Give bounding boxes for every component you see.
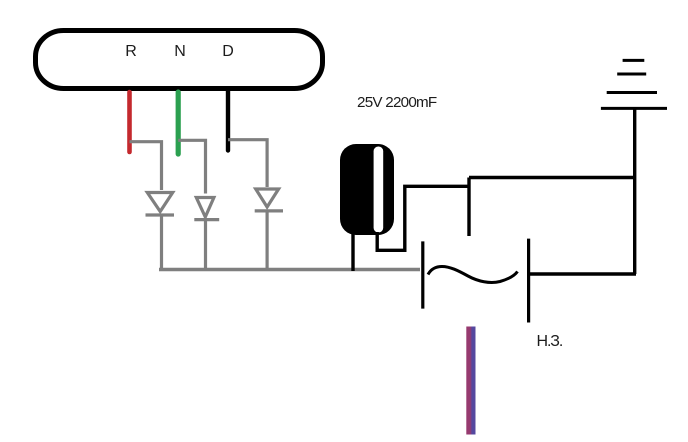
- svg-text:N: N: [174, 43, 186, 60]
- diode D2: [194, 198, 219, 270]
- wire: black lead from D pin: [226, 90, 230, 151]
- wire: gray jumper from black lead to diode D3: [228, 140, 267, 187]
- capacitor C1 (electrolytic, filled body): [340, 144, 394, 235]
- diode D3: [255, 189, 283, 270]
- wire: C1 negative lead down to bus: [351, 234, 354, 271]
- connector block J1 (R N D plug body): [36, 31, 323, 89]
- svg-text:25V 2200mF: 25V 2200mF: [357, 94, 437, 111]
- wire: red phase lead from R pin: [127, 92, 132, 152]
- relay contact plate (right, NC terminal): [527, 239, 530, 323]
- purple marker bar: [466, 327, 475, 435]
- diode D1: [146, 193, 175, 270]
- wire: top wire to ground stem: [469, 176, 636, 179]
- wire: green neutral lead from N pin: [176, 92, 181, 154]
- wire: lower wire from NC contact to ground stem: [529, 272, 636, 275]
- ground symbol: [601, 60, 667, 108]
- wire: gray bottom bus: [159, 268, 420, 271]
- movable contact arm (wavy link): [428, 267, 518, 283]
- wire: gray jumper from red lead to diode D1: [130, 142, 162, 190]
- wire: C1 positive lead to contact plate: [377, 186, 469, 250]
- wire: ground stem vertical: [633, 108, 636, 274]
- svg-text:R: R: [125, 43, 137, 60]
- relay contact plate (left, movable side): [421, 241, 424, 308]
- relay contact plate (common pole): [467, 178, 470, 237]
- svg-text:D: D: [222, 43, 234, 60]
- svg-text:Н.З.: Н.З.: [537, 333, 563, 350]
- wire: gray jumper from green lead to diode D2: [178, 140, 205, 193]
